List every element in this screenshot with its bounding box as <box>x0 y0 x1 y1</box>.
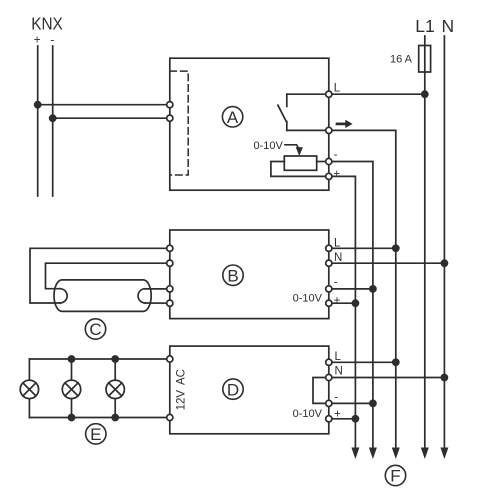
svg-text:D: D <box>227 380 239 399</box>
terminal D lamp top <box>167 356 173 362</box>
wire KNX- to device A <box>53 117 170 119</box>
device label circle A <box>222 107 242 127</box>
lamp E3 <box>106 359 124 418</box>
svg-text:12V AC: 12V AC <box>175 369 187 410</box>
svg-text:E: E <box>90 425 101 444</box>
wire B N to N bus <box>329 262 445 264</box>
wire B minus to minus net <box>329 288 373 290</box>
svg-text:+: + <box>333 169 340 181</box>
wire B L to switched net <box>329 247 396 249</box>
junction E3 top <box>111 355 119 363</box>
junction D N <box>441 374 449 382</box>
svg-text:0-10V: 0-10V <box>293 408 323 420</box>
fuse F1 16A <box>419 46 431 73</box>
svg-text:-: - <box>334 392 338 404</box>
lamp E1 <box>20 359 38 418</box>
svg-text:L1: L1 <box>415 16 434 36</box>
net L1 bus <box>424 36 426 450</box>
lamp group E top bus <box>29 358 169 360</box>
terminal A minus <box>326 158 332 164</box>
terminal D L <box>326 359 332 365</box>
fluorescent lamp C tube <box>54 280 151 312</box>
dashed bus-coupler outline in A <box>170 71 188 175</box>
device label circle B <box>223 265 243 285</box>
svg-text:N: N <box>442 16 455 36</box>
wire KNX+ to device A <box>38 104 170 106</box>
jumper N to minus inside D <box>313 378 329 404</box>
lamp C right electrode <box>138 289 145 303</box>
wire pot to minus terminal <box>317 161 329 163</box>
junction E3 bottom <box>111 414 119 422</box>
terminal D N <box>326 374 332 380</box>
svg-text:16 A: 16 A <box>390 54 413 66</box>
wire D plus to plus net <box>329 418 356 420</box>
svg-text:L: L <box>334 82 341 94</box>
terminal B L <box>326 245 332 251</box>
node label circle F <box>385 465 405 485</box>
junction A L on L1 <box>421 90 429 98</box>
arrow plus net continues <box>351 448 359 460</box>
arrow N continues <box>440 448 448 460</box>
junction B N <box>441 259 449 267</box>
junction on KNX- <box>49 114 57 122</box>
svg-text:+: + <box>334 295 341 307</box>
terminal B lamp 2 <box>167 260 173 266</box>
svg-text:+: + <box>34 32 41 46</box>
leader arrow from 0-10V label to potentiometer <box>285 145 303 156</box>
svg-text:L: L <box>335 351 342 363</box>
svg-text:N: N <box>335 365 343 377</box>
wire A L to L1 <box>329 93 425 95</box>
svg-text:C: C <box>89 320 101 339</box>
wire B lamp terminal 1 wrap to tube left lower pin <box>30 248 170 303</box>
net KNX minus bus <box>52 46 54 196</box>
arrow switched L net continues <box>392 448 400 460</box>
terminal B lamp 4 <box>167 300 173 306</box>
junction D L <box>392 358 400 366</box>
junction D plus <box>352 415 360 423</box>
terminal B plus <box>326 300 332 306</box>
switch contact in A <box>278 94 329 130</box>
svg-text:-: - <box>334 149 338 161</box>
terminal B N <box>326 260 332 266</box>
wire D N to N bus <box>329 377 445 379</box>
terminal B minus <box>326 286 332 292</box>
device label circle D <box>223 379 243 399</box>
device label circle C <box>85 319 105 339</box>
wire pot wrap to plus terminal <box>271 162 329 177</box>
terminal A KNX- <box>167 115 173 121</box>
junction B minus <box>369 285 377 293</box>
lamp group E bottom bus <box>29 417 169 419</box>
net N bus <box>443 36 445 450</box>
potentiometer 0-10V in A <box>284 156 316 170</box>
wire B lamp terminal 2 wrap to tube left upper pin <box>46 263 170 289</box>
svg-text:-: - <box>50 33 54 47</box>
net 0-10V plus: A out then down <box>329 176 356 450</box>
net KNX plus bus <box>37 46 39 196</box>
junction D minus <box>369 400 377 408</box>
lamp E2 <box>62 359 80 418</box>
svg-text:B: B <box>227 266 238 285</box>
svg-text:A: A <box>227 108 239 127</box>
svg-text:F: F <box>390 467 400 486</box>
junction E2 bottom <box>68 414 76 422</box>
wire tube right upper pin to B terminal 3 <box>145 288 170 290</box>
junction E2 top <box>68 355 76 363</box>
terminal D plus <box>326 416 332 422</box>
svg-text:KNX: KNX <box>31 13 63 33</box>
lamp C left electrode <box>60 289 67 303</box>
terminal A L <box>326 91 332 97</box>
device B box (ballast) <box>170 230 329 319</box>
wire B plus to plus net <box>329 302 356 304</box>
terminal D minus <box>326 400 332 406</box>
device D box (12V AC transformer) <box>170 346 329 434</box>
terminal A plus <box>326 173 332 179</box>
net 0-10V minus: A out then down <box>329 162 373 451</box>
terminal A KNX+ <box>167 102 173 108</box>
junction B L <box>392 244 400 252</box>
device A box (KNX controller) <box>170 58 329 190</box>
wire D minus to minus net <box>329 402 373 404</box>
svg-text:0-10V: 0-10V <box>293 293 323 305</box>
device label circle E <box>86 424 106 444</box>
switched output arrow symbol <box>337 120 353 128</box>
junction on KNX+ <box>34 101 42 109</box>
svg-text:0-10V: 0-10V <box>254 140 284 152</box>
net switched L: A out then down <box>329 130 396 450</box>
arrow L1 continues <box>421 448 429 460</box>
svg-text:-: - <box>334 277 338 289</box>
arrow minus net continues <box>369 448 377 460</box>
terminal B lamp 1 <box>167 245 173 251</box>
wire D L to switched net <box>329 361 396 363</box>
terminal B lamp 3 <box>167 286 173 292</box>
svg-text:N: N <box>334 252 342 264</box>
wire tube right lower pin to B terminal 4 <box>145 302 170 304</box>
terminal A switched out <box>326 127 332 133</box>
terminal D lamp bottom <box>167 414 173 420</box>
junction B plus <box>352 299 360 307</box>
